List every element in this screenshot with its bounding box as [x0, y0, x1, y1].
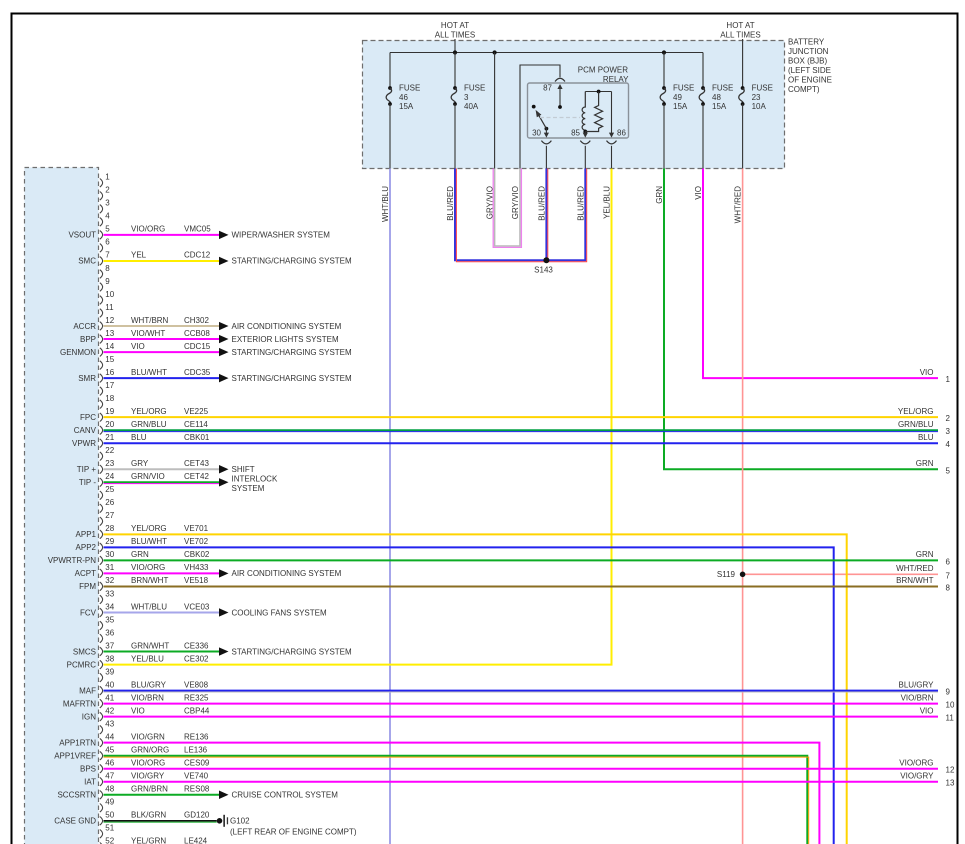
wire pin 30 GRN CBK02 to right edge: [104, 559, 939, 561]
splice S119: [740, 572, 746, 578]
node junction bus / fuse 49 feed: [662, 50, 666, 54]
wire VIO from fuse 48 to right edge: [703, 169, 938, 379]
svg-text:37: 37: [105, 641, 114, 650]
svg-text:27: 27: [105, 511, 114, 520]
svg-text:BLU/RED: BLU/RED: [576, 186, 585, 221]
svg-text:GRN/WHT: GRN/WHT: [131, 641, 169, 650]
svg-text:GENMON: GENMON: [60, 348, 96, 357]
svg-text:CET43: CET43: [184, 459, 209, 468]
svg-text:43: 43: [105, 719, 114, 728]
wire WHT/BLU from fuse 46: [389, 169, 391, 844]
node junction bus / fuse 3 feed: [453, 50, 457, 54]
svg-text:APP1: APP1: [76, 530, 97, 539]
svg-text:MAF: MAF: [79, 686, 96, 695]
svg-text:STARTING/CHARGING SYSTEM: STARTING/CHARGING SYSTEM: [232, 647, 352, 656]
svg-text:12: 12: [946, 766, 955, 775]
svg-text:VE701: VE701: [184, 524, 209, 533]
svg-text:WIPER/WASHER SYSTEM: WIPER/WASHER SYSTEM: [232, 231, 331, 240]
fuse 48 (15A): [702, 53, 704, 89]
wire pin 21 BLU CBK01 to right edge: [104, 442, 939, 444]
svg-text:CASE GND: CASE GND: [54, 817, 96, 826]
svg-text:VE702: VE702: [184, 537, 209, 546]
wire relay 87 feed loop (inside BJB): [520, 65, 560, 169]
svg-text:GRN/VIO: GRN/VIO: [131, 472, 165, 481]
svg-text:WHT/BLU: WHT/BLU: [381, 186, 390, 222]
svg-text:49: 49: [105, 798, 114, 807]
relay K1 PCM POWER RELAY box: [528, 83, 629, 138]
svg-text:1: 1: [946, 375, 951, 384]
svg-text:VPWR: VPWR: [72, 439, 96, 448]
wire pin 23 GRY CET43 to shift interlock: [104, 468, 220, 470]
wire YEL/BLU from relay 86 to PCM pin 38: [104, 169, 612, 665]
svg-text:BLU/RED: BLU/RED: [537, 186, 546, 221]
svg-text:YEL/ORG: YEL/ORG: [131, 524, 167, 533]
svg-text:VIO/BRN: VIO/BRN: [901, 693, 934, 702]
svg-text:BLU/GRY: BLU/GRY: [899, 680, 935, 689]
svg-text:3: 3: [946, 427, 951, 436]
svg-text:13: 13: [946, 779, 955, 788]
svg-text:38: 38: [105, 654, 114, 663]
svg-text:IGN: IGN: [82, 712, 96, 721]
wire pin 45 GRN/ORG LE136 down at right: [104, 756, 808, 844]
wire pin 47 VIO/GRY VE740 to right edge: [104, 781, 939, 783]
wire BLU/RED from relay 85 to S143: [548, 169, 585, 261]
svg-text:VIO: VIO: [131, 342, 145, 351]
svg-text:ALL TIMES: ALL TIMES: [720, 31, 760, 40]
svg-text:BLU/WHT: BLU/WHT: [131, 537, 167, 546]
svg-text:CANV: CANV: [74, 426, 97, 435]
svg-text:GRN/BLU: GRN/BLU: [131, 420, 167, 429]
wire WHT/RED from fuse 23: [742, 169, 744, 844]
svg-text:FUSE: FUSE: [673, 84, 694, 93]
svg-text:APP2: APP2: [76, 543, 97, 552]
svg-text:WHT/BRN: WHT/BRN: [131, 316, 169, 325]
svg-text:39: 39: [105, 667, 114, 676]
svg-text:CDC35: CDC35: [184, 368, 211, 377]
svg-text:GRN/BLU: GRN/BLU: [898, 420, 934, 429]
svg-text:10A: 10A: [752, 102, 767, 111]
svg-text:APP1VREF: APP1VREF: [54, 752, 96, 761]
svg-text:YEL/ORG: YEL/ORG: [131, 407, 167, 416]
svg-text:FUSE: FUSE: [464, 84, 485, 93]
svg-text:JUNCTION: JUNCTION: [788, 47, 829, 56]
wire pin 40 BLU/GRY VE808 to right edge: [104, 690, 939, 692]
svg-text:46: 46: [399, 93, 408, 102]
svg-text:BLU/GRY: BLU/GRY: [131, 680, 167, 689]
svg-text:TIP +: TIP +: [77, 465, 97, 474]
svg-text:VE740: VE740: [184, 772, 209, 781]
svg-text:FCV: FCV: [80, 608, 97, 617]
svg-text:CBP44: CBP44: [184, 706, 210, 715]
svg-text:18: 18: [105, 394, 114, 403]
svg-text:3: 3: [464, 93, 469, 102]
wire pin 31 VIO/ORG VH433 to air conditioning: [104, 572, 220, 574]
svg-text:SMCS: SMCS: [73, 647, 96, 656]
svg-text:STARTING/CHARGING SYSTEM: STARTING/CHARGING SYSTEM: [232, 374, 352, 383]
svg-text:17: 17: [105, 381, 114, 390]
wire pin 32 BRN/WHT VE518 to right edge: [104, 585, 939, 587]
fuse 3 (40A): [454, 53, 456, 89]
svg-text:S143: S143: [534, 266, 553, 275]
svg-text:4: 4: [105, 212, 110, 221]
svg-text:GRY/VIO: GRY/VIO: [511, 186, 520, 219]
svg-text:12: 12: [105, 316, 114, 325]
svg-text:7: 7: [946, 571, 951, 580]
svg-text:2: 2: [105, 186, 110, 195]
svg-text:BRN/WHT: BRN/WHT: [896, 576, 933, 585]
svg-text:HOT AT: HOT AT: [726, 21, 754, 30]
svg-text:24: 24: [105, 472, 114, 481]
PCM connector box: [25, 168, 99, 844]
svg-text:86: 86: [617, 129, 626, 138]
wire pin 7 YEL CDC12 to starting/charging: [104, 260, 220, 262]
svg-text:CBK01: CBK01: [184, 433, 210, 442]
svg-text:4: 4: [946, 440, 951, 449]
svg-text:VIO/ORG: VIO/ORG: [131, 759, 165, 768]
wire pin 48 GRN/BRN RES08 to cruise control: [104, 794, 220, 796]
svg-text:INTERLOCK: INTERLOCK: [232, 474, 278, 483]
relay coil top bar: [585, 91, 611, 93]
svg-text:VIO: VIO: [131, 706, 145, 715]
svg-text:CCB08: CCB08: [184, 329, 210, 338]
svg-text:WHT/RED: WHT/RED: [896, 564, 934, 573]
svg-text:SMR: SMR: [78, 374, 96, 383]
svg-text:CE114: CE114: [184, 420, 208, 429]
relay pin 87 connector: [555, 78, 565, 81]
PCM connector pin sockets 1-52: [100, 179, 103, 188]
svg-text:G102: G102: [230, 817, 250, 826]
svg-text:20: 20: [105, 420, 114, 429]
wire from right HOT AT ALL TIMES to fuse 23: [742, 39, 744, 88]
wire pin 34 WHT/BLU VCE03 to cooling fans: [104, 611, 220, 613]
svg-text:BLU: BLU: [918, 433, 934, 442]
svg-text:50: 50: [105, 811, 114, 820]
svg-text:FUSE: FUSE: [752, 84, 773, 93]
svg-text:23: 23: [105, 459, 114, 468]
svg-text:42: 42: [105, 706, 114, 715]
relay suppression resistor: [585, 92, 602, 132]
svg-text:5: 5: [946, 466, 951, 475]
fuse 23 (10A): [741, 86, 745, 90]
svg-text:VIO: VIO: [920, 368, 934, 377]
svg-text:26: 26: [105, 498, 114, 507]
svg-text:GRN/ORG: GRN/ORG: [131, 746, 169, 755]
svg-text:52: 52: [105, 837, 114, 844]
wire pin 37 GRN/WHT CE336 to starting/charging: [104, 651, 220, 653]
svg-text:47: 47: [105, 772, 114, 781]
svg-text:CH302: CH302: [184, 316, 209, 325]
wire pin 50 BLK/GRN GD120 to ground G102: [104, 820, 217, 822]
relay armature linkage (dashed): [540, 117, 580, 119]
svg-text:VE808: VE808: [184, 680, 209, 689]
wire pin 20 GRN/BLU CE114 to right edge: [104, 429, 939, 431]
svg-text:BRN/WHT: BRN/WHT: [131, 576, 168, 585]
svg-text:RELAY: RELAY: [603, 75, 629, 84]
wire from left HOT AT ALL TIMES to bus: [454, 39, 456, 53]
svg-text:51: 51: [105, 824, 114, 833]
svg-text:YEL/BLU: YEL/BLU: [131, 654, 164, 663]
wire pin 42 VIO CBP44 to right edge: [104, 716, 939, 718]
wire GRY/VIO loop to relay 87: [495, 169, 520, 247]
svg-text:15: 15: [105, 355, 114, 364]
svg-text:VIO: VIO: [694, 186, 703, 200]
svg-text:GRN: GRN: [916, 459, 934, 468]
svg-text:15A: 15A: [712, 102, 727, 111]
svg-text:36: 36: [105, 628, 114, 637]
svg-text:CBK02: CBK02: [184, 550, 210, 559]
svg-text:TIP -: TIP -: [79, 478, 97, 487]
svg-text:BLU: BLU: [131, 433, 147, 442]
svg-text:31: 31: [105, 563, 114, 572]
svg-text:33: 33: [105, 589, 114, 598]
wire pin 44 VIO/GRN RE136 down at right: [104, 743, 820, 844]
svg-text:VIO/GRN: VIO/GRN: [131, 732, 165, 741]
wire pin 41 VIO/BRN RE325 to right edge: [104, 703, 939, 705]
svg-text:30: 30: [532, 129, 541, 138]
svg-text:STARTING/CHARGING SYSTEM: STARTING/CHARGING SYSTEM: [232, 257, 352, 266]
wire pin 29 BLU/WHT VE702 down at right: [104, 547, 834, 844]
svg-text:6: 6: [946, 557, 951, 566]
svg-text:LE424: LE424: [184, 837, 208, 844]
svg-text:COOLING FANS SYSTEM: COOLING FANS SYSTEM: [232, 608, 327, 617]
svg-text:10: 10: [946, 701, 955, 710]
svg-text:SMC: SMC: [78, 257, 96, 266]
svg-text:GRN: GRN: [916, 550, 934, 559]
svg-text:SCCSRTN: SCCSRTN: [57, 791, 96, 800]
svg-text:11: 11: [105, 303, 114, 312]
svg-text:VIO: VIO: [920, 706, 934, 715]
fuse 49 (15A): [663, 53, 665, 89]
svg-text:VIO/GRY: VIO/GRY: [900, 772, 934, 781]
svg-text:WHT/RED: WHT/RED: [734, 186, 743, 224]
svg-text:40: 40: [105, 680, 114, 689]
svg-text:49: 49: [673, 93, 682, 102]
svg-text:5: 5: [105, 225, 110, 234]
wire pin 46 VIO/ORG CES09 to right edge: [104, 768, 939, 770]
svg-text:13: 13: [105, 329, 114, 338]
svg-text:ACPT: ACPT: [75, 569, 96, 578]
relay switch contacts: [532, 105, 536, 109]
svg-text:YEL: YEL: [131, 251, 147, 260]
wire pin 13 VIO/WHT CCB08 to exterior lights: [104, 338, 220, 340]
svg-text:S119: S119: [717, 570, 736, 579]
svg-text:FPC: FPC: [80, 413, 96, 422]
svg-text:AIR CONDITIONING SYSTEM: AIR CONDITIONING SYSTEM: [232, 569, 342, 578]
svg-text:PCMRC: PCMRC: [67, 660, 97, 669]
svg-text:OF ENGINE: OF ENGINE: [788, 76, 832, 85]
svg-text:ACCR: ACCR: [73, 322, 96, 331]
svg-text:87: 87: [543, 84, 552, 93]
svg-text:VIO/ORG: VIO/ORG: [131, 563, 165, 572]
wire WHT/RED branch from S119 to right edge: [743, 573, 938, 575]
relay pin 30: [545, 129, 547, 134]
svg-text:EXTERIOR LIGHTS SYSTEM: EXTERIOR LIGHTS SYSTEM: [232, 335, 339, 344]
svg-text:14: 14: [105, 342, 114, 351]
svg-text:45: 45: [105, 746, 114, 755]
svg-text:CDC15: CDC15: [184, 342, 211, 351]
svg-text:FUSE: FUSE: [399, 84, 420, 93]
svg-text:YEL/GRN: YEL/GRN: [131, 837, 166, 844]
svg-text:VMC05: VMC05: [184, 225, 211, 234]
svg-text:15A: 15A: [399, 102, 414, 111]
svg-text:35: 35: [105, 615, 114, 624]
svg-text:29: 29: [105, 537, 114, 546]
svg-text:VIO/WHT: VIO/WHT: [131, 329, 165, 338]
svg-text:VCE03: VCE03: [184, 602, 210, 611]
svg-text:CDC12: CDC12: [184, 251, 211, 260]
svg-text:22: 22: [105, 446, 114, 455]
svg-text:6: 6: [105, 238, 110, 247]
svg-text:19: 19: [105, 407, 114, 416]
relay pin 85: [584, 132, 586, 134]
wire bus inside BJB: [390, 52, 703, 54]
wire pin 28 YEL/ORG VE701 down at right: [104, 534, 847, 844]
svg-text:MAFRTN: MAFRTN: [63, 699, 96, 708]
svg-text:GRN/BRN: GRN/BRN: [131, 785, 168, 794]
svg-text:SYSTEM: SYSTEM: [232, 484, 265, 493]
svg-text:FUSE: FUSE: [712, 84, 733, 93]
relay pin 86: [611, 92, 613, 134]
svg-text:ALL TIMES: ALL TIMES: [435, 31, 475, 40]
svg-text:34: 34: [105, 602, 114, 611]
svg-text:CRUISE CONTROL SYSTEM: CRUISE CONTROL SYSTEM: [232, 791, 339, 800]
svg-text:VIO/ORG: VIO/ORG: [899, 759, 933, 768]
svg-text:GRN: GRN: [131, 550, 149, 559]
svg-text:APP1RTN: APP1RTN: [59, 738, 96, 747]
wire pin 19 YEL/ORG VE225 to right edge: [104, 416, 939, 418]
svg-text:GRN: GRN: [655, 186, 664, 204]
wire pin 24 GRN/VIO CET42 to shift interlock: [104, 481, 220, 483]
svg-text:(LEFT SIDE: (LEFT SIDE: [788, 66, 831, 75]
relay coil winding: [582, 92, 585, 132]
svg-text:PCM POWER: PCM POWER: [578, 66, 628, 75]
wire BLU/RED from fuse 3 to S143: [455, 169, 545, 261]
svg-text:48: 48: [712, 93, 721, 102]
svg-text:AIR CONDITIONING SYSTEM: AIR CONDITIONING SYSTEM: [232, 322, 342, 331]
svg-text:GD120: GD120: [184, 811, 210, 820]
fuse 46 (15A): [389, 53, 391, 89]
svg-text:BPP: BPP: [80, 335, 96, 344]
svg-text:VIO/BRN: VIO/BRN: [131, 693, 164, 702]
svg-text:CET42: CET42: [184, 472, 209, 481]
svg-text:YEL/ORG: YEL/ORG: [898, 407, 934, 416]
svg-text:VSOUT: VSOUT: [68, 231, 96, 240]
svg-text:2: 2: [946, 414, 951, 423]
svg-text:10: 10: [105, 290, 114, 299]
wire pin 14 VIO CDC15 to starting/charging: [104, 351, 220, 353]
svg-text:11: 11: [946, 714, 955, 723]
svg-text:23: 23: [752, 93, 761, 102]
svg-text:RE136: RE136: [184, 732, 209, 741]
svg-text:21: 21: [105, 433, 114, 442]
svg-text:YEL/BLU: YEL/BLU: [603, 186, 612, 219]
wire pin 5 VIO/ORG VMC05 to wiper/washer: [104, 234, 220, 236]
svg-text:LE136: LE136: [184, 746, 208, 755]
svg-text:BOX (BJB): BOX (BJB): [788, 57, 827, 66]
svg-text:CES09: CES09: [184, 759, 210, 768]
wire GRN from fuse 49 to right edge: [664, 169, 938, 470]
wire pin 12 WHT/BRN CH302 to air conditioning: [104, 325, 220, 327]
svg-text:VE225: VE225: [184, 407, 209, 416]
svg-text:RES08: RES08: [184, 785, 210, 794]
svg-text:CE336: CE336: [184, 641, 209, 650]
svg-text:BATTERY: BATTERY: [788, 38, 825, 47]
svg-text:BPS: BPS: [80, 765, 96, 774]
svg-text:GRY/VIO: GRY/VIO: [486, 186, 495, 219]
svg-text:SHIFT: SHIFT: [232, 465, 255, 474]
svg-text:VIO/ORG: VIO/ORG: [131, 225, 165, 234]
svg-text:IAT: IAT: [84, 778, 96, 787]
svg-text:15A: 15A: [673, 102, 688, 111]
svg-text:3: 3: [105, 199, 110, 208]
node junction bus / relay 87 tap: [493, 50, 497, 54]
svg-text:30: 30: [105, 550, 114, 559]
svg-text:32: 32: [105, 576, 114, 585]
svg-text:9: 9: [946, 688, 951, 697]
wire BLU/RED from relay 30 to S143: [545, 169, 547, 259]
svg-text:FPM: FPM: [79, 582, 96, 591]
svg-text:41: 41: [105, 693, 114, 702]
svg-text:RE325: RE325: [184, 693, 209, 702]
svg-text:(LEFT REAR OF ENGINE COMPT): (LEFT REAR OF ENGINE COMPT): [230, 828, 357, 837]
svg-text:8: 8: [105, 264, 110, 273]
svg-text:25: 25: [105, 485, 114, 494]
svg-text:9: 9: [105, 277, 110, 286]
svg-text:8: 8: [946, 583, 951, 592]
svg-text:BLU/RED: BLU/RED: [446, 186, 455, 221]
svg-text:44: 44: [105, 732, 114, 741]
svg-text:BLU/WHT: BLU/WHT: [131, 368, 167, 377]
svg-text:48: 48: [105, 785, 114, 794]
svg-text:HOT AT: HOT AT: [441, 21, 469, 30]
svg-text:BLK/GRN: BLK/GRN: [131, 811, 166, 820]
svg-text:COMPT): COMPT): [788, 85, 820, 94]
splice S143: [543, 257, 549, 263]
svg-text:28: 28: [105, 524, 114, 533]
svg-text:16: 16: [105, 368, 114, 377]
svg-text:1: 1: [105, 173, 110, 182]
svg-text:VIO/GRY: VIO/GRY: [131, 772, 165, 781]
svg-text:85: 85: [571, 129, 580, 138]
svg-text:WHT/BLU: WHT/BLU: [131, 602, 167, 611]
battery junction box (BJB) outline: [363, 41, 785, 169]
svg-text:VE518: VE518: [184, 576, 209, 585]
svg-text:7: 7: [105, 251, 110, 260]
svg-text:STARTING/CHARGING SYSTEM: STARTING/CHARGING SYSTEM: [232, 348, 352, 357]
svg-text:VH433: VH433: [184, 563, 209, 572]
svg-text:GRY: GRY: [131, 459, 149, 468]
svg-text:VPWRTR-PN: VPWRTR-PN: [48, 556, 97, 565]
ground G102 symbol: [217, 818, 223, 824]
svg-text:CE302: CE302: [184, 654, 209, 663]
svg-text:40A: 40A: [464, 102, 479, 111]
svg-text:46: 46: [105, 759, 114, 768]
wire pin 16 BLU/WHT CDC35 to starting/charging: [104, 377, 220, 379]
